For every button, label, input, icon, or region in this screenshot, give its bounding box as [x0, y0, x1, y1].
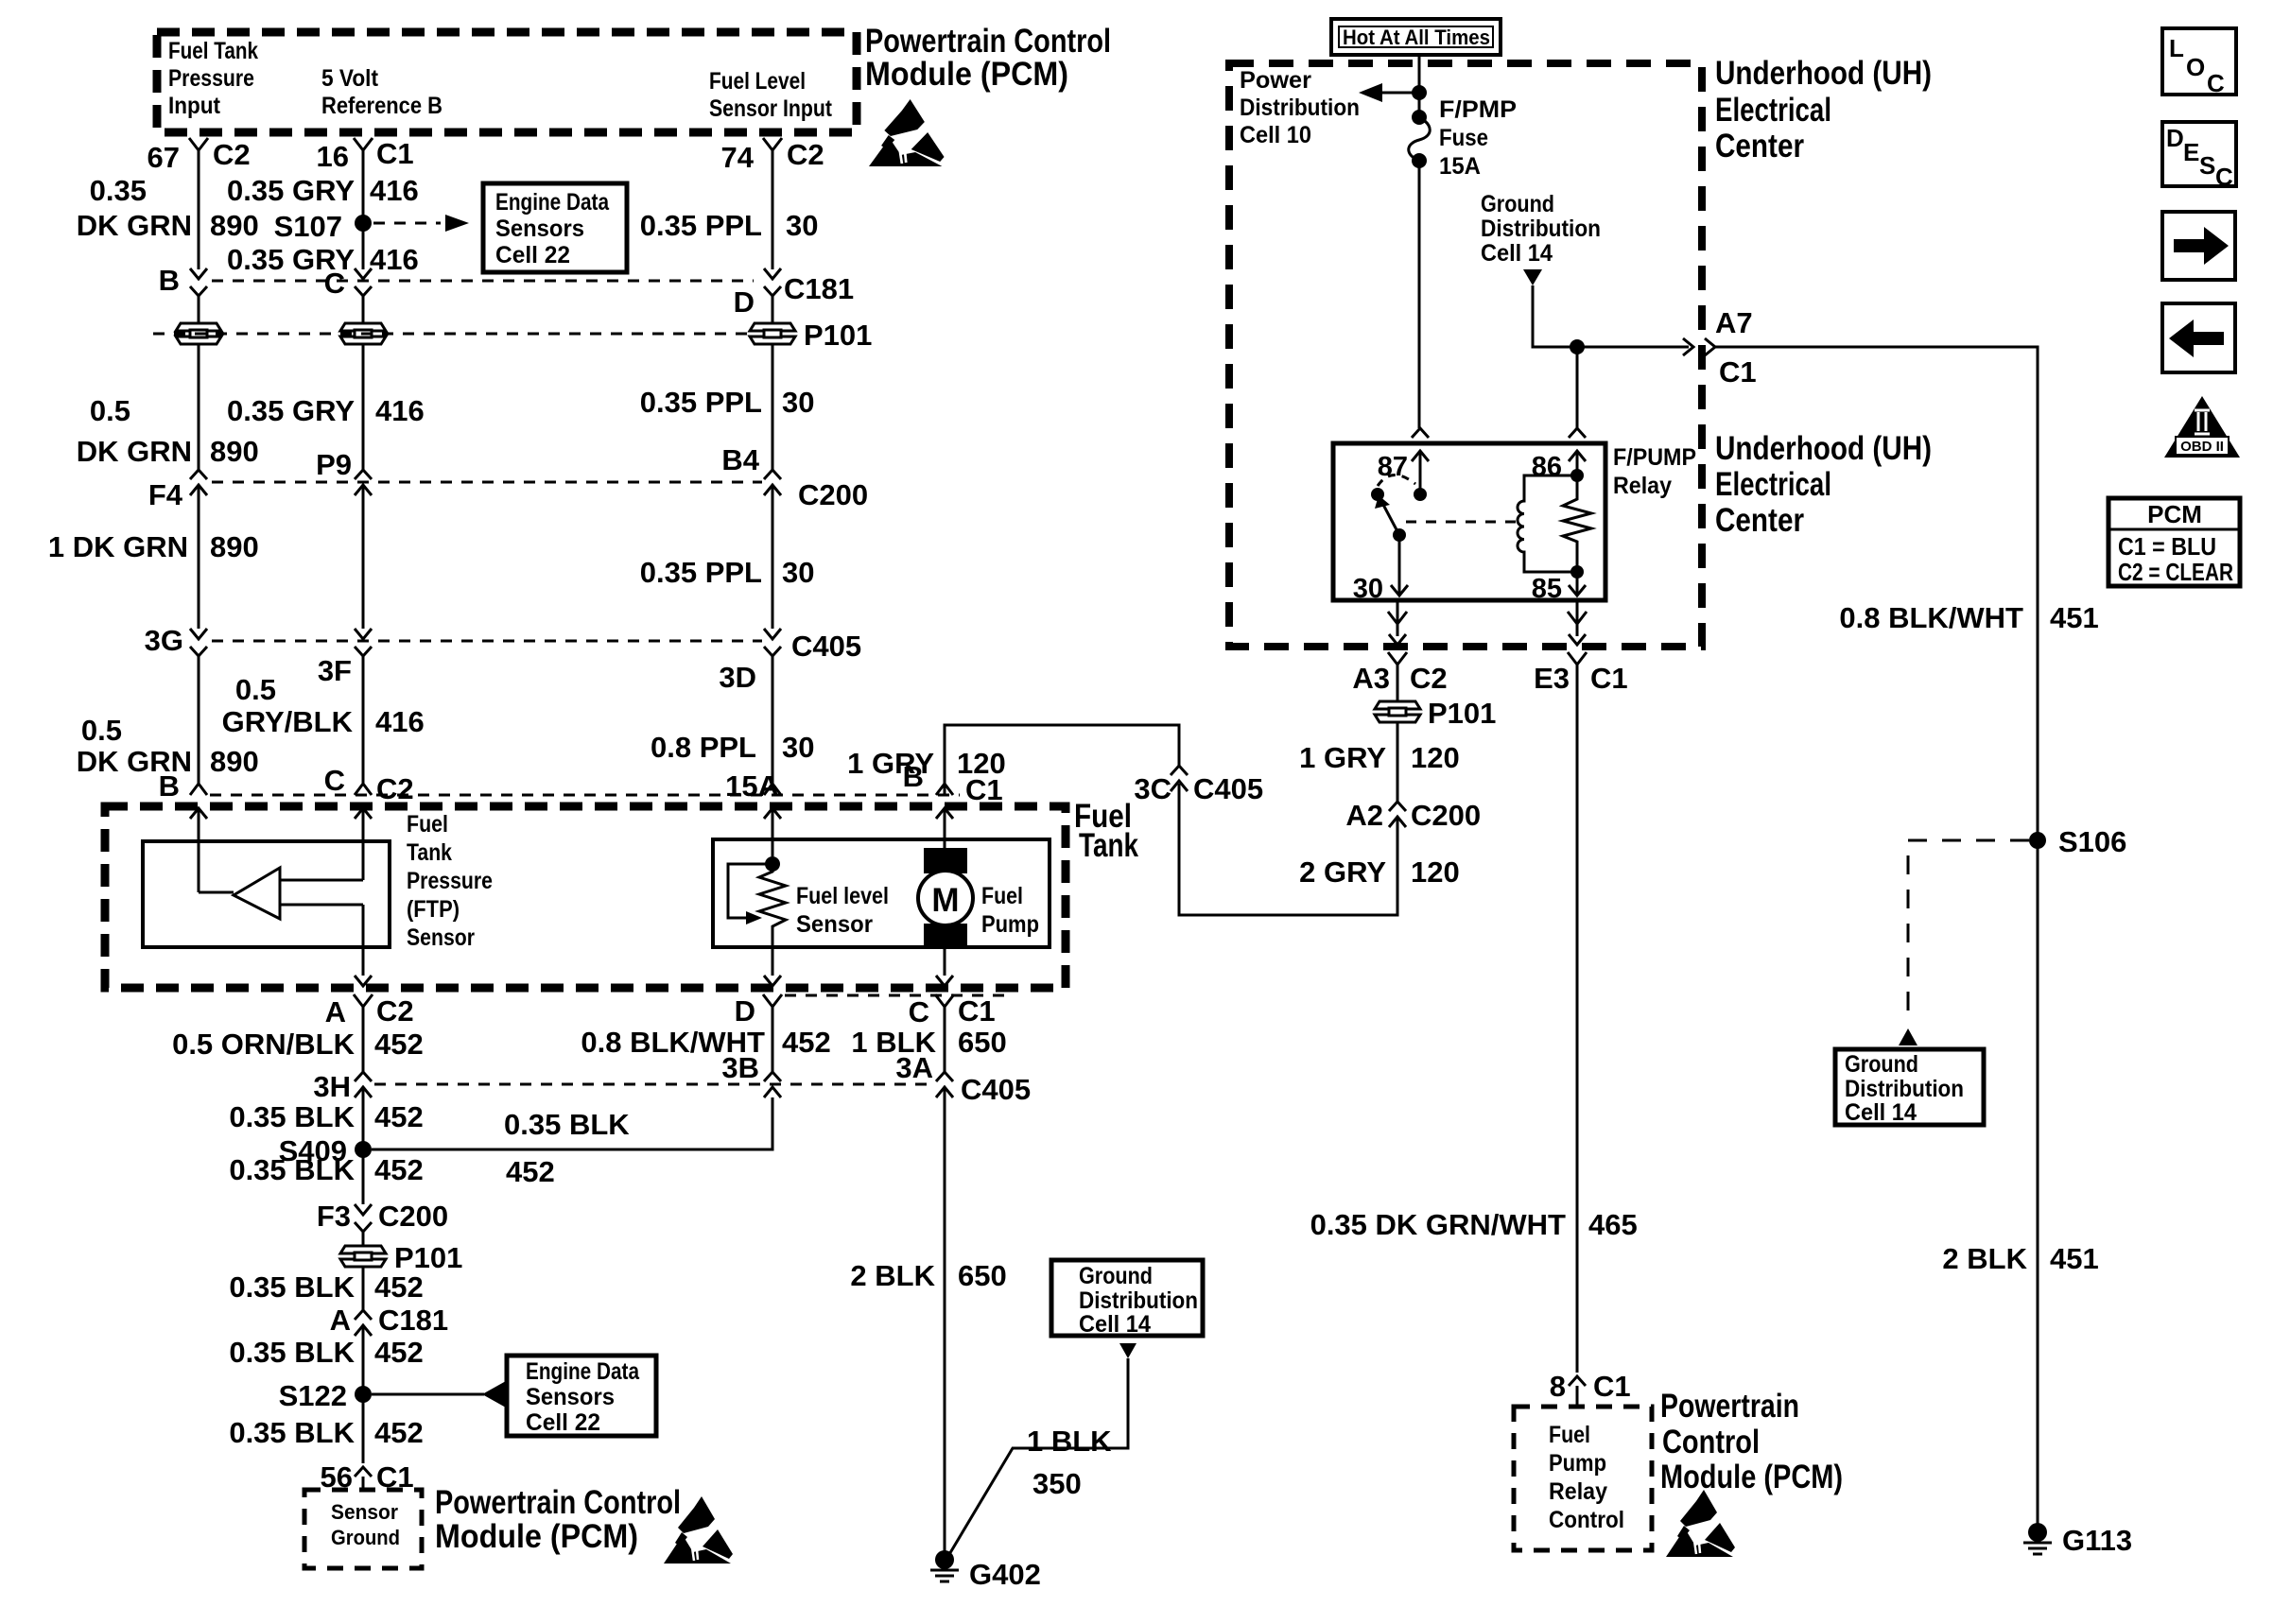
svg-text:452: 452: [374, 1153, 424, 1186]
wire: 0.35 DK GRN 890 (PCM to C181): [198, 163, 200, 269]
svg-text:0.35 PPL: 0.35 PPL: [640, 556, 762, 589]
connector pin 16 C1 (Y): [354, 138, 373, 163]
connector C405 pin 3F: [355, 629, 372, 639]
wire segment B to P101: [198, 307, 200, 323]
svg-text:8: 8: [1550, 1370, 1566, 1403]
svg-text:416: 416: [370, 174, 419, 207]
svg-text:5 Volt: 5 Volt: [321, 65, 379, 92]
triangle arrow below GD box: [1119, 1343, 1136, 1358]
svg-text:0.5: 0.5: [235, 673, 276, 706]
FTP sensor box: [143, 841, 390, 947]
arrow to Power Distribution: [1378, 92, 1419, 95]
svg-text:86: 86: [1532, 452, 1562, 482]
svg-text:Distribution: Distribution: [1845, 1076, 1964, 1102]
svg-text:B4: B4: [721, 443, 759, 476]
svg-text:30: 30: [786, 209, 818, 242]
pump exits tank pin C C1: [944, 949, 946, 976]
svg-text:0.35 GRY: 0.35 GRY: [227, 174, 355, 207]
svg-text:Underhood (UH): Underhood (UH): [1715, 430, 1932, 467]
wire: 0.8 PPL 30 (C405 to fuel tank): [772, 667, 774, 784]
svg-text:C200: C200: [798, 478, 868, 511]
svg-text:Center: Center: [1715, 502, 1804, 539]
svg-text:S106: S106: [2058, 825, 2126, 858]
svg-text:0.8 PPL: 0.8 PPL: [651, 731, 756, 764]
relay resistor: [1563, 475, 1591, 572]
svg-text:Fuel: Fuel: [1549, 1422, 1590, 1448]
svg-text:C: C: [324, 267, 345, 300]
svg-text:0.35: 0.35: [90, 174, 147, 207]
svg-text:1 DK GRN: 1 DK GRN: [48, 530, 188, 563]
svg-text:DK GRN: DK GRN: [77, 209, 192, 242]
svg-text:0.35 BLK: 0.35 BLK: [504, 1108, 630, 1141]
svg-text:67: 67: [147, 141, 180, 174]
svg-text:P101: P101: [1428, 697, 1496, 730]
wire: 0.35 BLK 452 (3H to S409): [362, 1087, 365, 1149]
svg-text:1 BLK: 1 BLK: [1027, 1425, 1112, 1458]
svg-text:S107: S107: [274, 210, 342, 243]
splice S409: [355, 1141, 372, 1158]
wire: 0.35 PPL 30 (P101 to C200): [772, 344, 774, 470]
wire: 1 GRY 120 (P101 to A2): [1397, 722, 1399, 802]
svg-text:A3: A3: [1352, 662, 1390, 695]
relay pin 85: [1576, 572, 1579, 596]
svg-text:Fuel Level: Fuel Level: [709, 68, 806, 95]
connector C200 pin F4: [190, 470, 207, 479]
ESD symbol top: [869, 99, 945, 166]
svg-text:890: 890: [210, 435, 259, 468]
svg-text:C181: C181: [784, 272, 854, 305]
svg-text:D: D: [2166, 124, 2184, 152]
svg-text:Sensors: Sensors: [495, 216, 584, 242]
connector pin 74 C2 (Y): [763, 138, 782, 163]
svg-text:PCM: PCM: [2147, 500, 2202, 528]
svg-text:D: D: [734, 285, 755, 319]
connector fuel tank pin 15A: [764, 784, 781, 795]
connector A C2 below tank: [354, 994, 373, 1019]
svg-text:Cell 14: Cell 14: [1079, 1311, 1151, 1338]
svg-text:0.5: 0.5: [90, 394, 130, 427]
inline connector P101 (lower): [338, 1245, 388, 1268]
svg-text:Electrical: Electrical: [1715, 466, 1831, 503]
svg-text:Module (PCM): Module (PCM): [435, 1518, 638, 1555]
wire: 0.5 ORN/BLK 452: [362, 1019, 365, 1072]
wire GD to A7 rail: [1533, 285, 1689, 347]
svg-text:C405: C405: [1193, 772, 1263, 805]
svg-text:3B: 3B: [721, 1051, 759, 1084]
svg-text:3H: 3H: [313, 1070, 351, 1103]
svg-text:451: 451: [2050, 601, 2099, 634]
svg-text:P9: P9: [316, 448, 352, 481]
svg-text:890: 890: [210, 530, 259, 563]
connector A3 C2 at UH bottom: [1397, 600, 1399, 625]
svg-text:2 GRY: 2 GRY: [1299, 855, 1386, 889]
svg-text:Ground: Ground: [331, 1526, 400, 1549]
svg-text:2 BLK: 2 BLK: [1942, 1242, 2027, 1275]
connector C181 pin B: [190, 268, 207, 279]
connector E3 C1 at UH bottom: [1576, 600, 1579, 625]
FTP internal wiring: [199, 880, 363, 905]
svg-text:Cell 10: Cell 10: [1240, 122, 1311, 148]
FTP sensor triangle: [234, 868, 280, 919]
wire4 B C1 into pump: [944, 808, 946, 848]
svg-text:Pressure: Pressure: [407, 868, 493, 894]
svg-text:3C: 3C: [1134, 772, 1171, 805]
svg-text:0.35 DK GRN/WHT: 0.35 DK GRN/WHT: [1310, 1208, 1566, 1241]
svg-text:L: L: [2169, 34, 2184, 62]
legend box PCM C1=BLU C2=CLEAR: [2108, 498, 2240, 586]
icon right-arrow box: [2162, 212, 2235, 280]
svg-text:890: 890: [210, 745, 259, 778]
svg-text:Ground: Ground: [1481, 191, 1554, 217]
wire fuse to relay 87: [1418, 161, 1421, 428]
wire: 0.35 GRY 416 (P101 to C200): [362, 344, 365, 470]
svg-text:Fuel level: Fuel level: [796, 883, 889, 909]
connector C405 pin 3C: [1171, 766, 1188, 775]
svg-text:OBD II: OBD II: [2180, 439, 2224, 455]
svg-text:0.35 BLK: 0.35 BLK: [229, 1153, 355, 1186]
svg-text:2 BLK: 2 BLK: [850, 1259, 935, 1292]
connector C200 pin P9: [355, 470, 372, 479]
svg-text:Sensor: Sensor: [407, 924, 475, 951]
wire: 0.8 BLK/WHT 452: [772, 1019, 774, 1072]
connector C405 pin 3D + dashed line: [212, 640, 762, 643]
svg-text:E: E: [2183, 138, 2199, 166]
connector C200 pin F3: [355, 1204, 372, 1215]
svg-text:Pump: Pump: [981, 911, 1039, 938]
svg-text:G113: G113: [2062, 1524, 2132, 1557]
wire 3C to A2 (gray 120): [1179, 784, 1397, 915]
wire: 1 BLK 350 to G402: [948, 1358, 1128, 1556]
svg-text:C405: C405: [791, 630, 861, 663]
svg-text:C200: C200: [1411, 799, 1481, 832]
connector C405 pin 3B: [764, 1072, 781, 1081]
svg-text:Pressure: Pressure: [168, 65, 254, 92]
svg-text:452: 452: [374, 1270, 424, 1304]
wire A3 to P101: [1397, 677, 1399, 701]
F/PUMP relay box: [1333, 443, 1605, 600]
svg-text:C1: C1: [958, 994, 996, 1028]
wire: 0.35 GRY 416 (S107 to C181): [362, 223, 365, 269]
svg-text:Fuel: Fuel: [981, 883, 1023, 909]
Fuel Pump Relay Control dashed box: [1514, 1407, 1652, 1550]
dashed branch S106 to Ground Distribution: [1908, 840, 2029, 1024]
svg-text:416: 416: [375, 394, 425, 427]
svg-text:G402: G402: [969, 1558, 1041, 1591]
svg-text:Reference B: Reference B: [321, 93, 442, 119]
connector pin 67 C2 (Y): [189, 138, 208, 163]
svg-text:F/PUMP: F/PUMP: [1613, 444, 1696, 471]
connector D below tank: [763, 994, 782, 1019]
svg-text:P101: P101: [804, 319, 872, 352]
svg-text:Ground: Ground: [1845, 1051, 1918, 1078]
svg-text:C: C: [909, 995, 929, 1028]
svg-text:C2: C2: [1410, 662, 1448, 695]
ground G402: [935, 1550, 954, 1569]
inline connector P101 (right): [1373, 700, 1422, 723]
svg-text:30: 30: [782, 556, 814, 589]
wire: 1 BLK 650 (C to 3A): [935, 994, 954, 1019]
fuel sender unit box: [713, 839, 1050, 947]
svg-text:Cell 22: Cell 22: [495, 242, 570, 268]
box: Ground Distribution Cell 14 (middle): [1051, 1260, 1203, 1336]
triangle arrow below GD label: [1523, 269, 1542, 285]
connector 8 C1: [1569, 1376, 1586, 1386]
svg-text:C: C: [2207, 69, 2225, 97]
svg-text:Power: Power: [1240, 67, 1311, 94]
svg-text:Cell 14: Cell 14: [1845, 1099, 1917, 1126]
svg-text:451: 451: [2050, 1242, 2099, 1275]
svg-text:Fuel: Fuel: [407, 811, 448, 838]
svg-text:Center: Center: [1715, 128, 1804, 164]
svg-text:Fuse: Fuse: [1439, 125, 1488, 151]
svg-text:650: 650: [958, 1026, 1007, 1059]
wire: 0.35 PPL 30 (PCM to C181): [772, 163, 774, 269]
ground G113: [2028, 1523, 2047, 1542]
svg-text:C1: C1: [1719, 355, 1757, 389]
svg-text:B: B: [159, 264, 180, 297]
svg-text:Engine Data: Engine Data: [526, 1358, 640, 1385]
dashed arrow S107 to Engine Data Sensors: [373, 222, 441, 225]
fuel pump motor: [924, 848, 967, 873]
svg-text:C200: C200: [378, 1200, 448, 1233]
svg-text:15A: 15A: [1439, 153, 1481, 180]
svg-text:F4: F4: [148, 478, 183, 511]
svg-text:0.35 PPL: 0.35 PPL: [640, 386, 762, 419]
wire: 0.5 GRY/BLK 416 (C405 to fuel tank): [362, 667, 365, 784]
fuel level sensor resistor: [765, 856, 780, 872]
wire: 0.5 DK GRN 890 (C405 to fuel tank): [198, 667, 200, 784]
svg-text:16: 16: [317, 140, 349, 173]
ESD symbol bottom-right: [1666, 1490, 1735, 1557]
svg-text:C2: C2: [376, 994, 414, 1028]
svg-text:650: 650: [958, 1259, 1007, 1292]
svg-text:GRY/BLK: GRY/BLK: [222, 705, 354, 738]
svg-text:S122: S122: [279, 1379, 347, 1412]
svg-text:A2: A2: [1345, 799, 1383, 832]
svg-text:452: 452: [374, 1028, 424, 1061]
1 GRY 120 wire from pump up and right: [945, 725, 1179, 795]
relay pin 87: [1412, 428, 1429, 438]
svg-text:30: 30: [1353, 574, 1383, 604]
svg-text:0.35 BLK: 0.35 BLK: [229, 1100, 355, 1133]
svg-text:350: 350: [1032, 1467, 1082, 1500]
wire A7 to right rail: [1715, 347, 2038, 1532]
A7 C1 wire break at UH edge: [1683, 338, 1693, 355]
svg-text:0.5 ORN/BLK: 0.5 ORN/BLK: [172, 1028, 356, 1061]
svg-text:452: 452: [374, 1336, 424, 1369]
connector C181 pin D + dashed line: [212, 280, 754, 283]
wire from Hot At All Times down: [1418, 55, 1421, 117]
box: Engine Data Sensors Cell 22 (top): [483, 183, 627, 272]
svg-text:Electrical: Electrical: [1715, 92, 1831, 129]
svg-text:Engine Data: Engine Data: [495, 189, 610, 216]
svg-text:0.35 PPL: 0.35 PPL: [640, 209, 762, 242]
svg-text:A: A: [330, 1304, 351, 1337]
wire2 exits tank pin A: [355, 976, 372, 986]
svg-text:C1: C1: [376, 137, 414, 170]
svg-text:C2: C2: [787, 138, 824, 171]
svg-text:Distribution: Distribution: [1079, 1287, 1198, 1314]
svg-text:Sensors: Sensors: [526, 1384, 615, 1410]
wire: 0.35 BLK 452 (P101 to C181 A): [362, 1267, 365, 1310]
svg-text:Distribution: Distribution: [1481, 216, 1601, 242]
svg-text:B: B: [159, 769, 180, 803]
relay pin 30: [1398, 535, 1401, 596]
svg-text:Pump: Pump: [1549, 1450, 1606, 1477]
svg-text:1 GRY: 1 GRY: [1299, 741, 1386, 774]
svg-text:15A: 15A: [725, 769, 779, 803]
relay pin 86: [1569, 428, 1586, 438]
svg-text:C2: C2: [213, 138, 251, 171]
svg-text:C405: C405: [961, 1073, 1031, 1106]
svg-text:Powertrain Control: Powertrain Control: [435, 1484, 681, 1521]
connector 56 C1: [355, 1467, 372, 1477]
svg-text:0.35 GRY: 0.35 GRY: [227, 394, 355, 427]
svg-text:30: 30: [782, 386, 814, 419]
svg-text:Powertrain: Powertrain: [1660, 1388, 1799, 1425]
wire: 0.35 BLK 452 branch from S409 to 3B tail: [372, 1097, 772, 1149]
Underhood UH dashed box: [1229, 63, 1702, 647]
svg-text:890: 890: [210, 209, 259, 242]
wire E3 down to PCM pin 8: [1576, 677, 1579, 1373]
Sensor Ground dashed box: [304, 1490, 422, 1568]
relay coil: [1518, 475, 1577, 572]
svg-text:C1: C1: [1590, 662, 1628, 695]
svg-text:465: 465: [1588, 1208, 1638, 1241]
box: Hot At All Times: [1331, 19, 1501, 55]
svg-text:Module (PCM): Module (PCM): [1660, 1459, 1843, 1495]
svg-text:Control: Control: [1549, 1507, 1624, 1533]
svg-text:0.35 BLK: 0.35 BLK: [229, 1336, 355, 1369]
svg-text:Relay: Relay: [1613, 473, 1672, 499]
svg-text:Sensor: Sensor: [331, 1500, 398, 1524]
svg-text:C2: C2: [376, 772, 414, 805]
connector C405 pin 3H + dashed row: [374, 1083, 934, 1086]
svg-text:1 GRY: 1 GRY: [847, 747, 934, 780]
svg-text:85: 85: [1532, 574, 1562, 604]
connector C200 pin B4 + dashed line: [212, 481, 762, 484]
connector C405 pin 3A: [936, 1072, 953, 1081]
svg-text:120: 120: [957, 747, 1006, 780]
svg-text:0.5: 0.5: [81, 714, 122, 747]
wire: 0.5 DK GRN 890 (P101 to C200): [198, 344, 200, 470]
wire3 exits tank pin D: [772, 926, 774, 976]
wire: 0.35 PPL 30 (C200 to C405): [772, 485, 774, 629]
svg-text:P101: P101: [394, 1241, 462, 1274]
svg-text:74: 74: [721, 141, 755, 174]
wire: 1 DK GRN 890 (C200 to C405): [198, 485, 200, 629]
svg-text:416: 416: [375, 705, 425, 738]
wire segment C200 to C405: [362, 485, 365, 629]
connector fuel tank pin C / C2: [355, 784, 372, 795]
svg-text:Input: Input: [168, 93, 221, 119]
wire: 0.35 GRY 416 (PCM to S107): [362, 163, 365, 223]
connector C181 pin A: [355, 1310, 372, 1320]
fuse F/PMP 15A: [1412, 110, 1427, 125]
svg-text:C: C: [324, 764, 345, 797]
svg-text:Relay: Relay: [1549, 1478, 1607, 1505]
svg-text:C181: C181: [378, 1304, 448, 1337]
svg-text:Distribution: Distribution: [1240, 95, 1360, 121]
wire: 0.35 BLK 452 (S122 to 56 C1): [362, 1394, 365, 1463]
svg-text:S: S: [2199, 151, 2215, 180]
svg-text:Fuel Tank: Fuel Tank: [168, 38, 258, 64]
connector C405 pin 3G: [190, 629, 207, 639]
icon left-arrow box: [2162, 303, 2235, 372]
svg-text:416: 416: [370, 243, 419, 276]
icon DESC box: [2162, 122, 2236, 186]
inline connector P101 (wire2): [338, 322, 388, 345]
svg-text:Cell 14: Cell 14: [1481, 240, 1553, 267]
svg-text:D: D: [735, 994, 755, 1028]
svg-text:C1: C1: [1593, 1370, 1631, 1403]
relay link dashed: [1406, 521, 1518, 524]
svg-text:452: 452: [374, 1416, 424, 1449]
svg-text:F/PMP: F/PMP: [1439, 96, 1517, 123]
svg-text:Hot At All Times: Hot At All Times: [1343, 26, 1490, 49]
svg-text:3D: 3D: [719, 661, 756, 694]
connector C181 pin C: [355, 268, 372, 279]
svg-text:Sensor: Sensor: [796, 911, 873, 938]
svg-text:Module (PCM): Module (PCM): [865, 56, 1068, 93]
svg-text:452: 452: [782, 1026, 831, 1059]
splice S107: [355, 215, 372, 232]
svg-text:F3: F3: [317, 1200, 351, 1233]
svg-text:120: 120: [1411, 855, 1460, 889]
svg-text:452: 452: [506, 1155, 555, 1188]
svg-text:Control: Control: [1662, 1424, 1760, 1460]
svg-text:3G: 3G: [145, 624, 183, 657]
svg-text:Underhood (UH): Underhood (UH): [1715, 55, 1932, 92]
thin dashed connector line at tank top: [210, 794, 960, 797]
wire: 0.35 BLK 452 (S409 down to F3): [362, 1149, 365, 1204]
svg-text:Sensor Input: Sensor Input: [709, 95, 833, 122]
thin dashed connector line at tank bottom: [785, 994, 1004, 997]
svg-text:120: 120: [1411, 741, 1460, 774]
wire from S122 to Engine Data Sensors (arrow): [372, 1393, 484, 1396]
svg-text:M: M: [931, 882, 959, 919]
ESD symbol bottom-left: [664, 1496, 733, 1564]
triangle arrow into GD box: [1899, 1028, 1917, 1045]
svg-text:C1 = BLU: C1 = BLU: [2118, 532, 2216, 561]
P101 dashed row: [153, 333, 747, 336]
svg-text:DK GRN: DK GRN: [77, 435, 192, 468]
svg-text:C2 = CLEAR: C2 = CLEAR: [2118, 558, 2233, 586]
svg-text:(FTP): (FTP): [407, 896, 460, 923]
svg-text:Tank: Tank: [407, 839, 452, 866]
wire: 0.35 BLK 452 (C181 to S122): [362, 1325, 365, 1394]
icon OBD II triangle: [2164, 396, 2240, 458]
inline connector P101 (wire1): [174, 322, 223, 345]
inline connector P101 (wire3): [748, 322, 797, 345]
svg-text:0.8 BLK/WHT: 0.8 BLK/WHT: [1839, 601, 2023, 634]
svg-text:3F: 3F: [318, 654, 352, 687]
fuel tank dashed box: [105, 806, 1066, 988]
svg-text:3A: 3A: [895, 1051, 933, 1084]
splice S122: [355, 1386, 372, 1403]
PCM top dashed box: [157, 32, 857, 132]
relay switch: [1371, 488, 1384, 501]
svg-text:A: A: [325, 995, 346, 1028]
svg-text:0.35 BLK: 0.35 BLK: [229, 1416, 355, 1449]
svg-text:Powertrain Control: Powertrain Control: [865, 23, 1111, 60]
box: Engine Data Sensors Cell 22 (bottom): [507, 1356, 656, 1436]
svg-text:452: 452: [374, 1100, 424, 1133]
svg-text:E3: E3: [1534, 662, 1570, 695]
svg-text:A7: A7: [1715, 306, 1753, 339]
svg-text:Tank: Tank: [1079, 827, 1138, 864]
svg-text:30: 30: [782, 731, 814, 764]
